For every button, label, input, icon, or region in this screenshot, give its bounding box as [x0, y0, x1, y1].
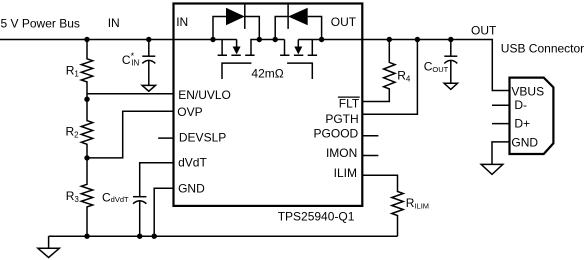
svg-text:42mΩ: 42mΩ — [251, 67, 283, 81]
svg-text:IN: IN — [176, 15, 188, 29]
svg-text:USB Connector: USB Connector — [501, 41, 584, 55]
svg-text:VBUS: VBUS — [511, 85, 544, 99]
svg-text:EN/UVLO: EN/UVLO — [178, 88, 231, 102]
svg-text:OVP: OVP — [177, 105, 202, 119]
svg-text:dVdT: dVdT — [178, 156, 207, 170]
svg-text:OUT: OUT — [331, 15, 357, 29]
svg-text:D-: D- — [514, 98, 527, 112]
svg-text:D+: D+ — [514, 117, 530, 131]
svg-text:5 V Power Bus: 5 V Power Bus — [1, 17, 80, 31]
svg-text:PGTH: PGTH — [325, 112, 358, 126]
svg-text:IMON: IMON — [326, 146, 357, 160]
svg-text:TPS25940-Q1: TPS25940-Q1 — [278, 210, 355, 224]
svg-text:IN: IN — [108, 16, 120, 30]
svg-text:ILIM: ILIM — [334, 166, 357, 180]
svg-text:FLT: FLT — [339, 96, 360, 110]
svg-text:GND: GND — [178, 182, 205, 196]
svg-text:GND: GND — [511, 136, 538, 150]
svg-text:OUT: OUT — [471, 23, 497, 37]
svg-text:PGOOD: PGOOD — [314, 126, 359, 140]
svg-text:DEVSLP: DEVSLP — [179, 131, 226, 145]
